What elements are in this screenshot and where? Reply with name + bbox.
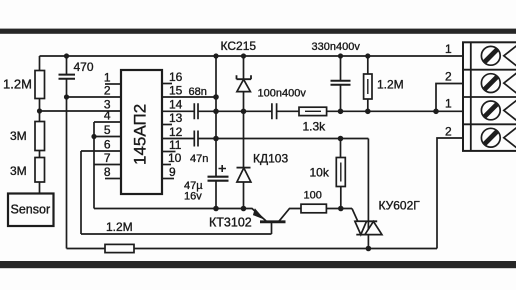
svg-text:100n400v: 100n400v xyxy=(258,88,307,100)
resistor R2 3M xyxy=(35,122,45,151)
svg-text:1: 1 xyxy=(104,71,111,85)
diode VD2 КД103 xyxy=(237,168,251,182)
Q1 base lead down xyxy=(271,222,273,234)
svg-text:12: 12 xyxy=(169,125,183,139)
svg-text:КД103: КД103 xyxy=(253,152,288,166)
svg-text:2: 2 xyxy=(104,84,111,98)
wire base net horizontal xyxy=(81,233,272,235)
screw terminal 3 xyxy=(481,100,516,120)
terminal block divider 2 xyxy=(463,96,516,98)
node C1/pin2 xyxy=(64,94,69,99)
capacitor C3 47n xyxy=(194,131,198,147)
svg-text:10: 10 xyxy=(168,151,182,165)
svg-text:1.3k: 1.3k xyxy=(303,120,327,134)
wire pin6 vertical down xyxy=(80,151,82,234)
wire C1 down to bottom rail xyxy=(66,79,68,249)
wire pin 1 stub xyxy=(105,83,121,85)
wire pin 9 stub xyxy=(162,178,174,180)
node pin5 junction xyxy=(91,134,96,139)
wire 112 net left part xyxy=(216,110,272,112)
wire pin 2 xyxy=(67,96,122,98)
wire top rail xyxy=(40,55,464,57)
svg-text:15: 15 xyxy=(169,84,183,98)
wire pin 10 stub xyxy=(162,164,171,166)
svg-text:8: 8 xyxy=(104,165,111,179)
wire R2 to R3 xyxy=(39,151,41,158)
wire R1 to node xyxy=(39,99,41,112)
terminal block inner vertical xyxy=(470,42,472,151)
resistor R8 1.2M (bottom) xyxy=(105,244,134,252)
wire pins4/5/7 vertical down xyxy=(93,122,95,209)
capacitor C5 100n400v xyxy=(272,103,277,119)
plus sign of C4 xyxy=(219,165,227,172)
R4 inner mark xyxy=(305,110,321,112)
node rail/R5 xyxy=(365,53,370,58)
wire C6 to 112 net xyxy=(340,85,342,111)
node pin12 xyxy=(213,136,219,142)
svg-text:КУ602Г: КУ602Г xyxy=(379,199,421,213)
triac VS1 КУ602Г xyxy=(355,221,382,234)
wire C4 to emitter net xyxy=(215,181,217,209)
svg-text:16: 16 xyxy=(169,70,183,84)
svg-text:145АП2: 145АП2 xyxy=(131,104,150,165)
op IC U1 145АП2 body xyxy=(121,70,162,194)
wire gate diagonal xyxy=(352,209,358,222)
wire pin 14 left part xyxy=(162,110,194,112)
node rail/330n xyxy=(338,53,343,58)
resistor R6 10k xyxy=(336,158,345,187)
svg-text:6: 6 xyxy=(104,138,111,152)
screw terminal 2 xyxy=(481,73,516,93)
resistor R1 1.2M (left) xyxy=(35,71,45,99)
svg-text:3М: 3М xyxy=(10,129,27,143)
wire pin 8 stub xyxy=(105,178,121,180)
wire 112 net right part xyxy=(327,110,463,112)
wire R3 to sensor xyxy=(39,182,41,194)
node C4/emitter net xyxy=(213,206,219,212)
wire emitter net horizontal xyxy=(94,208,253,210)
svg-text:КТ3102: КТ3102 xyxy=(209,216,252,230)
svg-text:470: 470 xyxy=(74,60,94,74)
capacitor C6 330n400v xyxy=(331,81,351,85)
bottom black bar xyxy=(0,261,516,268)
wire pin 12 left part xyxy=(162,138,194,140)
node R5/112 net xyxy=(365,109,371,115)
wire pin 6 xyxy=(81,150,121,152)
wire C5 to R4 xyxy=(277,110,299,112)
node pin14 xyxy=(213,109,219,115)
wire rail to R1 xyxy=(39,56,41,71)
top black bar xyxy=(0,29,516,34)
zener VD1 КС215 xyxy=(237,75,252,91)
node C6/112 net xyxy=(338,109,344,115)
node R1/R2/pin3 xyxy=(37,108,42,113)
Q1 collector xyxy=(279,209,302,222)
wire pin 15 xyxy=(162,96,216,98)
wire node to R6 xyxy=(340,139,342,158)
resistor R3 3M xyxy=(35,158,45,183)
sensor box xyxy=(8,194,54,227)
capacitor C2 68n xyxy=(194,103,198,119)
wire pin 11 stub xyxy=(162,151,176,153)
node R6/gate net xyxy=(338,206,344,212)
svg-text:2: 2 xyxy=(445,125,452,139)
screw terminal 4 xyxy=(481,128,516,148)
terminal block divider 3 xyxy=(463,123,516,125)
R6 inner mark xyxy=(340,163,342,182)
resistor R7 100 xyxy=(301,204,326,213)
svg-text:13: 13 xyxy=(169,111,183,125)
wire bottom rail xyxy=(67,248,438,250)
wire zener-diode vertical xyxy=(243,56,245,209)
wire terminal row4 step xyxy=(437,138,463,249)
transistor Q1 КТ3102 emitter arrow xyxy=(252,208,266,221)
svg-text:100: 100 xyxy=(304,190,322,202)
svg-text:14: 14 xyxy=(169,98,183,112)
wire pin 13 stub xyxy=(162,124,172,126)
wire pin 5 xyxy=(94,136,121,138)
terminal block divider 1 xyxy=(463,69,516,71)
terminal block X1 outline xyxy=(463,42,516,151)
wire pin 4 xyxy=(94,121,121,123)
svg-text:3М: 3М xyxy=(10,164,27,178)
Q1 base bar xyxy=(260,220,286,223)
svg-text:1: 1 xyxy=(445,42,452,56)
svg-text:1: 1 xyxy=(445,97,452,111)
wire R7 to gate node xyxy=(326,208,352,210)
node triac/bottom rail xyxy=(366,246,372,252)
svg-text:330n400v: 330n400v xyxy=(312,41,361,53)
svg-text:68n: 68n xyxy=(189,86,207,98)
capacitor C4 47µ plates xyxy=(208,177,229,181)
svg-text:КС215: КС215 xyxy=(221,39,257,53)
wire rail to R5 xyxy=(367,56,369,74)
screw terminal 1 xyxy=(481,46,516,66)
node rail/zener xyxy=(241,53,246,58)
wire pin 12 right to triac line corner xyxy=(198,138,368,140)
wire vertical x216 upper xyxy=(215,56,217,176)
svg-text:1.2M: 1.2M xyxy=(3,77,32,92)
wire pin 16 stub xyxy=(162,83,172,85)
svg-text:47n: 47n xyxy=(190,153,208,165)
svg-text:Sensor: Sensor xyxy=(11,203,51,217)
svg-text:1.2M: 1.2M xyxy=(377,78,404,92)
svg-text:11: 11 xyxy=(169,138,182,152)
node pin15 xyxy=(213,94,219,100)
wire rail to C6 xyxy=(340,56,342,81)
node rail/C1 xyxy=(64,53,69,58)
svg-text:16v: 16v xyxy=(184,191,202,203)
wire triac main vertical xyxy=(367,139,369,249)
wire pin 14 right part xyxy=(198,110,216,112)
resistor R4 1.3k xyxy=(299,107,327,115)
svg-text:2: 2 xyxy=(445,70,452,84)
node row2/112 net xyxy=(433,109,439,115)
wire terminal row2 step xyxy=(436,84,463,112)
svg-text:1.2M: 1.2M xyxy=(106,220,133,234)
svg-text:7: 7 xyxy=(104,151,111,165)
svg-text:10k: 10k xyxy=(310,166,330,180)
wire R5 to 112 net xyxy=(367,99,369,111)
wire pin 3 xyxy=(40,110,122,112)
node 138 net / R6 10k xyxy=(338,136,344,142)
resistor R5 1.2M (right) xyxy=(364,74,372,99)
wire pin 7 xyxy=(94,164,121,166)
node zener / 112 wire xyxy=(241,109,247,115)
svg-text:4: 4 xyxy=(104,109,111,123)
svg-text:9: 9 xyxy=(169,165,176,179)
R5 inner mark xyxy=(367,79,369,94)
svg-text:5: 5 xyxy=(104,123,111,137)
wire R6 to gate net xyxy=(340,187,342,209)
wire node to R2 xyxy=(39,111,41,122)
wire rail to C1 xyxy=(66,56,68,74)
capacitor C1 470 xyxy=(59,75,76,79)
node diode/emitter net xyxy=(241,206,247,212)
node rail/IC vertical xyxy=(213,53,218,58)
